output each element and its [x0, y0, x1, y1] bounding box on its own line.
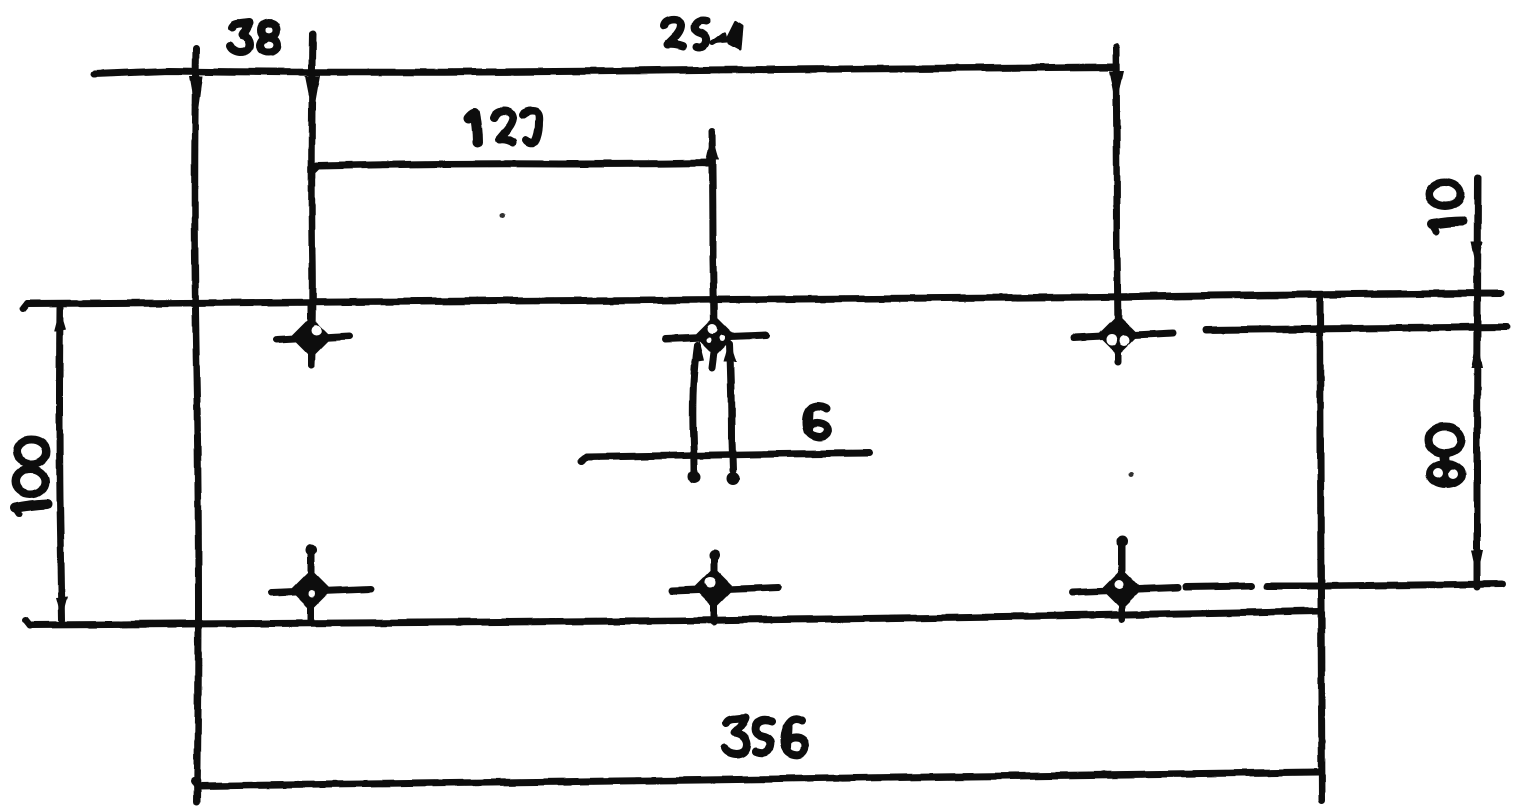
- extension line left reference x=195 (full height): [195, 49, 199, 802]
- dimension line 127: [317, 163, 711, 166]
- arrowhead 10 pointing down to plate top edge: [1471, 242, 1483, 270]
- arrowhead top of 100 line: [54, 309, 66, 332]
- label 10 (rotated, right top): [1429, 182, 1463, 231]
- extension line plate right edge x=1320: [1320, 297, 1322, 800]
- hole bottom-right (1122,589): [1072, 536, 1178, 620]
- arrowhead bottom of 100 line: [56, 597, 68, 620]
- leader line right (hole dia 6): [730, 344, 733, 471]
- hole bottom-left (311,590): [271, 545, 371, 624]
- hole row line top right (for 10/80): [1206, 327, 1506, 330]
- dimension line 38/254 (top horizontal): [94, 67, 1116, 74]
- leader line left (hole dia 6): [693, 345, 697, 471]
- wire hole centre spike below top-middle hole: [712, 352, 714, 368]
- label 38: [230, 23, 277, 52]
- arrowhead x=1116 below top dim line: [1109, 71, 1124, 106]
- wire hook left end of 127 line: [312, 166, 317, 171]
- extension line hole column x=712: [712, 131, 714, 348]
- wire hook left end of 356: [194, 780, 198, 786]
- wire hook left end of 6 line: [581, 457, 586, 461]
- dimension line 356 (bottom): [198, 772, 1320, 786]
- dimension line 6: [586, 453, 869, 457]
- arrowhead 80 pointing down to dashed hole row: [1471, 550, 1483, 578]
- node leader feet dots: [688, 471, 701, 484]
- node stray dot 1: [500, 213, 505, 218]
- label 6 (hole diameter): [806, 406, 828, 438]
- arrowhead left leader pointing up: [691, 340, 704, 362]
- label 254: [664, 20, 742, 49]
- wire solid part beyond plate edge: [1322, 584, 1502, 586]
- extension line hole column x=313: [311, 34, 313, 365]
- dimension line 100 (left vertical): [60, 308, 63, 620]
- plate top edge: [27, 293, 1501, 304]
- wire hook left end of bottom edge: [26, 620, 30, 625]
- label 356: [725, 718, 805, 755]
- arrowhead right leader pointing up: [724, 340, 737, 362]
- dashed hole row line bottom right: [1186, 586, 1252, 587]
- hole bottom-middle (714,588): [672, 550, 779, 623]
- wire dash: [1267, 583, 1317, 590]
- hole top-left (311,337): [277, 305, 349, 365]
- hole top-right (1118,335): [1073, 318, 1173, 352]
- label 127: [469, 111, 539, 143]
- label 100 (rotated, left): [15, 440, 47, 514]
- arrowhead x=712 above 127 line: [706, 133, 719, 160]
- arrowhead on extension x=313 below top dim line: [305, 76, 320, 116]
- hole top-middle (715,336): [666, 319, 767, 353]
- dimension line 10/80 (right vertical x=1478): [1477, 178, 1478, 587]
- node stray dot 2: [1129, 472, 1134, 477]
- arrowhead on extension x=195 below top dim line: [189, 76, 203, 122]
- label 80 (rotated, right): [1429, 427, 1463, 485]
- extension line hole column x=1116: [1116, 47, 1118, 362]
- arrowhead 80 pointing up to hole row line: [1471, 338, 1483, 368]
- wire hook left end of top edge: [23, 304, 27, 309]
- plate bottom edge: [30, 611, 1319, 625]
